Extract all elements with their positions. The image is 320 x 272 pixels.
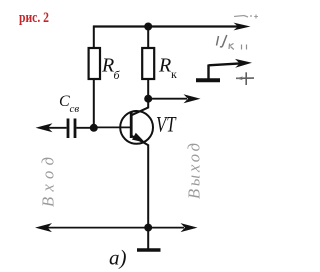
emitter lead of VT with arrow — [132, 136, 149, 145]
svg-text:C: C — [59, 93, 70, 110]
svg-text:б: б — [114, 68, 121, 82]
wire: base node to transistor base — [94, 126, 132, 128]
junction: emitter/common node — [144, 224, 152, 232]
svg-text:св: св — [70, 103, 80, 115]
wire: collector output with arrow — [148, 98, 187, 100]
svg-text:R: R — [101, 55, 114, 77]
capacitor Cсв — [67, 119, 70, 139]
arrowhead input (left, pointing left) — [36, 123, 53, 132]
junction: base node — [90, 124, 98, 132]
wire: right vertical from rail to Rк — [147, 26, 149, 50]
svg-text:рис. 2: рис. 2 — [19, 10, 49, 26]
svg-text:а): а) — [109, 246, 127, 270]
wire: input lead to capacitor — [48, 127, 67, 129]
annotation: step-input symbol — [196, 78, 220, 82]
wire: Rб bottom to base node — [93, 79, 95, 128]
arrowhead on supply rail (right, pointing right) — [234, 23, 251, 31]
annotation: faint scribble top right — [234, 16, 252, 18]
ground — [147, 228, 149, 249]
wire: top supply rail — [93, 25, 238, 27]
transistor VT — [120, 111, 153, 144]
wire: capacitor to base node — [76, 127, 94, 129]
svg-text:Вход: Вход — [39, 157, 58, 207]
annotation: plus mark — [236, 77, 254, 79]
wire: Rк bottom to collector node — [147, 79, 149, 99]
svg-text:R: R — [158, 55, 171, 77]
collector lead of VT — [132, 107, 149, 115]
resistor Rк — [142, 48, 154, 79]
junction: rail / Rк — [144, 23, 152, 31]
wire: emitter down — [147, 145, 149, 229]
wire: bottom common line with left arrow — [35, 223, 52, 232]
annotation: pencil Uк п — [217, 35, 227, 47]
resistor Rб — [89, 48, 100, 79]
junction: collector node — [144, 95, 152, 103]
svg-text:VT: VT — [156, 112, 177, 137]
wire: left vertical from rail to Rб — [93, 26, 95, 50]
svg-text:Выход: Выход — [185, 143, 204, 199]
svg-text:к: к — [171, 67, 177, 81]
wire: output bottom lead with arrow — [148, 227, 184, 229]
